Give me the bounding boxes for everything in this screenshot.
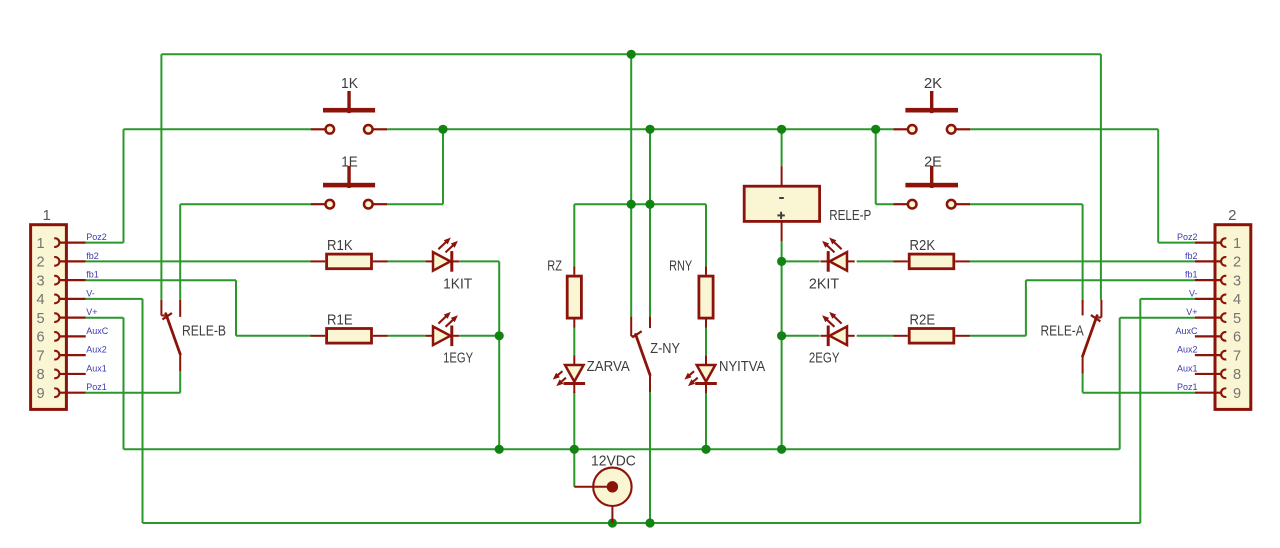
junction center right [645, 200, 654, 209]
svg-text:12VDC: 12VDC [591, 453, 636, 469]
LED 2KIT cathode bar [827, 251, 830, 272]
push button 2E right pin stub [956, 203, 970, 205]
LED 2KIT pin stubs [820, 260, 829, 262]
svg-text:Aux2: Aux2 [86, 345, 107, 355]
push button 1K actuator stem [347, 91, 350, 113]
wire Vm-left-h [86, 298, 143, 300]
LED ZARVA cathode bar [564, 382, 586, 385]
push button 2K left pin stub [893, 128, 907, 130]
wire center-h [574, 203, 706, 205]
svg-text:V-: V- [1189, 288, 1198, 298]
svg-text:R1K: R1K [327, 238, 353, 254]
push button 1E right pin stub [374, 203, 388, 205]
svg-text:AuxC: AuxC [1175, 326, 1198, 336]
relay coil RELE-P bottom pin stub [781, 221, 783, 241]
wire fb1-left-v [235, 280, 237, 336]
svg-text:1EGY: 1EGY [443, 351, 473, 367]
junction row2 left [495, 331, 504, 340]
wire center-v-left [630, 54, 632, 316]
push button 2E left pin stub [893, 203, 907, 205]
wire row2E-in-h [876, 203, 894, 205]
wire row1-left-end [460, 260, 499, 262]
svg-text:Aux1: Aux1 [1177, 363, 1198, 373]
svg-text:2: 2 [1233, 255, 1241, 271]
svg-text:fb2: fb2 [86, 251, 99, 261]
barrel jack 12VDC sleeve pin stub [611, 506, 613, 523]
push button 2E actuator stem [930, 166, 933, 188]
pin 9 of J2 (Poz1) [1221, 388, 1226, 397]
LED 1EGY emission arrows [438, 314, 448, 323]
wire Poz2-right-h [1158, 242, 1195, 244]
resistor RNY bottom pin stub [705, 320, 707, 328]
resistor R1E right pin stub [373, 335, 388, 337]
resistor RZ top pin stub [573, 267, 575, 275]
junction RELE-P feed [777, 125, 786, 134]
wire Poz2-left-v [123, 129, 125, 242]
wire releA-throw-v [1082, 204, 1084, 300]
resistor R2K left pin stub [893, 260, 908, 262]
svg-text:Poz1: Poz1 [1177, 382, 1198, 392]
wire row2-right-b [857, 335, 894, 337]
pin 9 of J1 (Poz1) [54, 388, 59, 397]
connector J2 body [1215, 225, 1251, 410]
svg-text:V-: V- [86, 288, 95, 298]
pin 3 of J2 (fb1) [1221, 276, 1226, 285]
junction 1E output to K row [438, 125, 447, 134]
LED 1KIT pin stubs [425, 260, 433, 262]
svg-text:RELE-P: RELE-P [829, 208, 871, 224]
wire row1-left-mid [387, 260, 425, 262]
svg-text:3: 3 [36, 273, 44, 289]
svg-text:2E: 2E [924, 154, 942, 170]
switch Z-NY throw pin stub (near) [649, 317, 651, 329]
resistor RZ body [567, 276, 581, 318]
push button 1K left contact circle [326, 125, 335, 134]
LED ZARVA pin line [573, 355, 575, 393]
barrel jack 12VDC outer circle [593, 468, 631, 506]
push button 2K actuator stem [930, 91, 933, 113]
push button 1K left pin stub [311, 128, 325, 130]
push button 1E right contact circle [364, 200, 373, 209]
resistor R1K right pin stub [373, 260, 388, 262]
wire Poz1-left-h [86, 392, 181, 394]
LED ZARVA triangle [565, 365, 584, 382]
wire row2E-in-v [875, 129, 877, 204]
svg-text:1: 1 [43, 207, 51, 224]
wire row2E-out-h [970, 203, 1083, 205]
svg-text:6: 6 [1233, 330, 1241, 346]
LED 1KIT emission arrows [438, 240, 448, 249]
switch RELE-B contact tick [162, 313, 172, 319]
svg-text:7: 7 [36, 348, 44, 364]
switch RELE-B blade [166, 314, 180, 355]
svg-text:2KIT: 2KIT [809, 276, 839, 292]
resistor R2K right pin stub [955, 260, 970, 262]
push button 1E left pin stub [311, 203, 325, 205]
wire ZARVA-rail-v [573, 392, 575, 450]
svg-text:R2K: R2K [910, 238, 936, 254]
LED 1EGY cathode bar [450, 326, 453, 347]
push button 2K right contact circle [947, 125, 956, 134]
svg-text:1E: 1E [341, 154, 358, 170]
wire releB-throw-v [179, 204, 181, 300]
svg-text:RNY: RNY [669, 258, 692, 274]
wire RNY-top-v [705, 204, 707, 266]
wire rail-12v-v [573, 449, 575, 487]
svg-text:Poz2: Poz2 [1177, 232, 1198, 242]
svg-text:4: 4 [36, 292, 44, 308]
connector J1 body [31, 225, 67, 410]
pin 1 of J1 (Poz2) [54, 238, 59, 247]
LED NYITVA pin line [705, 355, 707, 393]
barrel jack 12VDC center pin dot [607, 481, 618, 492]
junction rail V+ / row2 left [495, 445, 504, 454]
switch RELE-A blade [1083, 316, 1097, 357]
svg-text:2: 2 [36, 255, 44, 271]
pin 8 of J1 (Aux1) [54, 370, 59, 379]
svg-text:RZ: RZ [547, 258, 562, 274]
pin 6 of J2 (AuxC) [1221, 332, 1226, 341]
junction center left [627, 200, 636, 209]
pin 7 of J1 (Aux2) [54, 351, 59, 360]
resistor RNY top pin stub [705, 267, 707, 275]
wire row1E-out-h [387, 203, 443, 205]
switch Z-NY common pin stub [649, 376, 651, 392]
push button 1K right contact circle [364, 125, 373, 134]
wire row2-left-v [498, 336, 500, 450]
relay coil RELE-P plus mark [777, 214, 784, 216]
wire Vp-right-h [1120, 317, 1195, 319]
wire Poz2-left-h [86, 242, 124, 244]
resistor RNY body [699, 276, 713, 318]
wire fb1-left-h [86, 279, 236, 281]
svg-text:Aux1: Aux1 [86, 363, 107, 373]
svg-text:RELE-A: RELE-A [1041, 323, 1085, 339]
svg-text:6: 6 [36, 330, 44, 346]
switch RELE-A throw pin stub (far) [1100, 300, 1102, 318]
wire Vm-right-h [1140, 298, 1195, 300]
svg-text:Aux2: Aux2 [1177, 345, 1198, 355]
wire row2K-right [970, 128, 1158, 130]
pin 5 of J2 (V+) [1221, 313, 1226, 322]
LED 2KIT triangle [830, 252, 847, 271]
wire row1-right-b [857, 260, 894, 262]
wire Vm-left-v [142, 299, 144, 523]
resistor R1E left pin stub [311, 335, 326, 337]
junction RELE-P output / 2KIT row [777, 257, 786, 266]
LED ZARVA emission arrows [555, 371, 562, 377]
push button 2K actuator bar [905, 108, 958, 113]
relay coil RELE-P minus mark [779, 197, 784, 199]
push button 1E left contact circle [326, 200, 335, 209]
push button 2E left contact circle [908, 200, 917, 209]
svg-text:2: 2 [1228, 207, 1236, 224]
wire row1E-left [180, 203, 311, 205]
junction rail V+ / NYITVA [701, 445, 710, 454]
svg-text:ZARVA: ZARVA [587, 359, 630, 375]
svg-text:fb1: fb1 [1185, 270, 1198, 280]
wire row1K-mid [387, 128, 893, 130]
pin 4 of J1 (V-) [54, 295, 59, 304]
wire row2-right-a [782, 335, 820, 337]
push button 1K right pin stub [374, 128, 388, 130]
svg-text:R1E: R1E [327, 313, 353, 329]
svg-text:R2E: R2E [910, 313, 936, 329]
resistor RZ bottom pin stub [573, 320, 575, 328]
wire Vp-left-h [86, 317, 124, 319]
resistor R2E right pin stub [955, 335, 970, 337]
wire toprail-right-v [1100, 54, 1102, 300]
push button 1E actuator stem [347, 166, 350, 188]
junction top rail / center [627, 50, 636, 59]
wire Vm-right-v [1139, 299, 1141, 523]
svg-text:fb1: fb1 [86, 270, 99, 280]
wire fb2-left-h [86, 260, 311, 262]
push button 1K actuator bar [323, 108, 375, 113]
LED NYITVA emission arrows [687, 371, 694, 377]
svg-text:9: 9 [36, 386, 44, 402]
LED 1KIT cathode bar [450, 251, 453, 272]
wire fb1-right-h [1026, 279, 1195, 281]
wire row1-right-a [782, 260, 820, 262]
LED 2EGY emission arrows [832, 314, 842, 323]
wire center-v-right [649, 129, 651, 316]
svg-text:9: 9 [1233, 386, 1241, 402]
svg-text:8: 8 [36, 367, 44, 383]
switch RELE-A common pin stub [1082, 357, 1084, 373]
LED NYITVA cathode bar [695, 382, 717, 385]
switch RELE-A contact tick [1091, 315, 1101, 321]
push button 2K right pin stub [956, 128, 970, 130]
wire RZ-ZARVA-v [573, 328, 575, 356]
resistor R2E left pin stub [893, 335, 908, 337]
svg-text:1KIT: 1KIT [443, 276, 472, 292]
pin 5 of J1 (V+) [54, 313, 59, 322]
wire row2-left-mid [387, 335, 425, 337]
resistor R1E body [327, 329, 372, 344]
junction rail V+ / ZARVA [570, 445, 579, 454]
junction rail V- / 12VDC sleeve [608, 518, 617, 527]
LED 2EGY cathode bar [827, 326, 830, 347]
push button 1E actuator bar [323, 183, 375, 188]
switch RELE-B throw pin stub (far) [160, 300, 162, 316]
relay coil RELE-P top pin stub [781, 166, 783, 186]
svg-text:Poz1: Poz1 [86, 382, 107, 392]
pin 6 of J1 (AuxC) [54, 332, 59, 341]
switch RELE-B throw pin stub (near) [179, 300, 181, 317]
wire Poz1-right-v [1082, 373, 1084, 393]
wire rail2-h [143, 522, 1141, 524]
pin 8 of J2 (Aux1) [1221, 370, 1226, 379]
pin 2 of J1 (fb2) [54, 257, 59, 266]
svg-text:2K: 2K [924, 76, 943, 92]
svg-text:1: 1 [36, 236, 44, 252]
svg-text:NYITVA: NYITVA [719, 359, 766, 375]
push button 2E right contact circle [947, 200, 956, 209]
wire releP-bot-v [781, 241, 783, 261]
wire right-col-v2 [781, 336, 783, 450]
wire releP-top-v [781, 129, 783, 166]
wire Poz1-right-h [1083, 392, 1195, 394]
svg-text:7: 7 [1233, 348, 1241, 364]
LED 2EGY triangle [830, 327, 847, 346]
resistor R1K left pin stub [311, 260, 326, 262]
svg-text:AuxC: AuxC [86, 326, 109, 336]
wire RNY-NYITVA-v [705, 328, 707, 356]
pin 7 of J2 (Aux2) [1221, 351, 1226, 360]
push button 2K left contact circle [908, 125, 917, 134]
wire rail1-h [124, 448, 1120, 450]
wire right-col-v1 [781, 261, 783, 335]
wire toprail-h [161, 53, 1101, 55]
wire Poz2-right-v [1157, 129, 1159, 242]
pin 4 of J2 (V-) [1221, 295, 1226, 304]
wire row2-right-end [970, 335, 1026, 337]
wire NYITVA-rail-v [705, 392, 707, 450]
switch Z-NY blade [636, 334, 650, 375]
wire ZNY-common-v [649, 392, 651, 523]
switch Z-NY throw pin stub (far) [630, 317, 632, 337]
wire RZ-top-v [573, 204, 575, 266]
svg-text:V+: V+ [86, 307, 97, 317]
switch RELE-B common pin stub [179, 355, 181, 371]
wire row1-left-v [498, 261, 500, 335]
junction rail V+ / right column [777, 445, 786, 454]
wire fb1-right-v [1025, 280, 1027, 336]
svg-text:4: 4 [1233, 292, 1241, 308]
wire toprail-left-v [160, 54, 162, 300]
resistor R2E body [909, 329, 954, 344]
wire Vp-left-v [123, 318, 125, 450]
svg-text:1K: 1K [341, 76, 358, 92]
switch RELE-A throw pin stub (near) [1082, 300, 1084, 316]
pin 1 of J2 (Poz2) [1221, 238, 1226, 247]
svg-text:1: 1 [1233, 236, 1241, 252]
wire row1E-out-v [442, 129, 444, 204]
LED 2KIT emission arrows [832, 240, 842, 249]
svg-text:2EGY: 2EGY [809, 351, 840, 367]
LED 1EGY pin stubs [425, 335, 433, 337]
LED 1EGY triangle [433, 327, 450, 346]
junction row2 right [777, 331, 786, 340]
svg-text:5: 5 [36, 311, 44, 327]
resistor R1K body [327, 254, 372, 269]
push button 2E actuator bar [905, 183, 958, 188]
junction rail V- / Z-NY common [645, 518, 654, 527]
wire row1K-left [124, 128, 312, 130]
pin 3 of J1 (fb1) [54, 276, 59, 285]
junction 2E input branch [871, 125, 880, 134]
relay coil RELE-P body [744, 186, 819, 221]
wire row2-left-a [236, 335, 311, 337]
svg-text:5: 5 [1233, 311, 1241, 327]
svg-text:8: 8 [1233, 367, 1241, 383]
junction Z-NY right throw to K row [645, 125, 654, 134]
switch Z-NY contact tick [632, 331, 642, 337]
svg-text:fb2: fb2 [1185, 251, 1198, 261]
resistor R2K body [909, 254, 954, 269]
wire Vp-right-v [1119, 318, 1121, 450]
svg-text:Z-NY: Z-NY [650, 341, 680, 357]
wire Poz1-left-v [179, 371, 181, 392]
svg-text:RELE-B: RELE-B [182, 323, 226, 339]
LED NYITVA triangle [697, 365, 716, 382]
LED 2EGY pin stubs [820, 335, 829, 337]
barrel jack 12VDC center pin line [574, 486, 612, 488]
svg-text:3: 3 [1233, 273, 1241, 289]
pin 2 of J2 (fb2) [1221, 257, 1226, 266]
wire row2-left-end [460, 335, 499, 337]
svg-text:V+: V+ [1186, 307, 1197, 317]
svg-text:Poz2: Poz2 [86, 232, 107, 242]
LED 1KIT triangle [433, 252, 450, 271]
wire fb2-right-h [970, 260, 1195, 262]
